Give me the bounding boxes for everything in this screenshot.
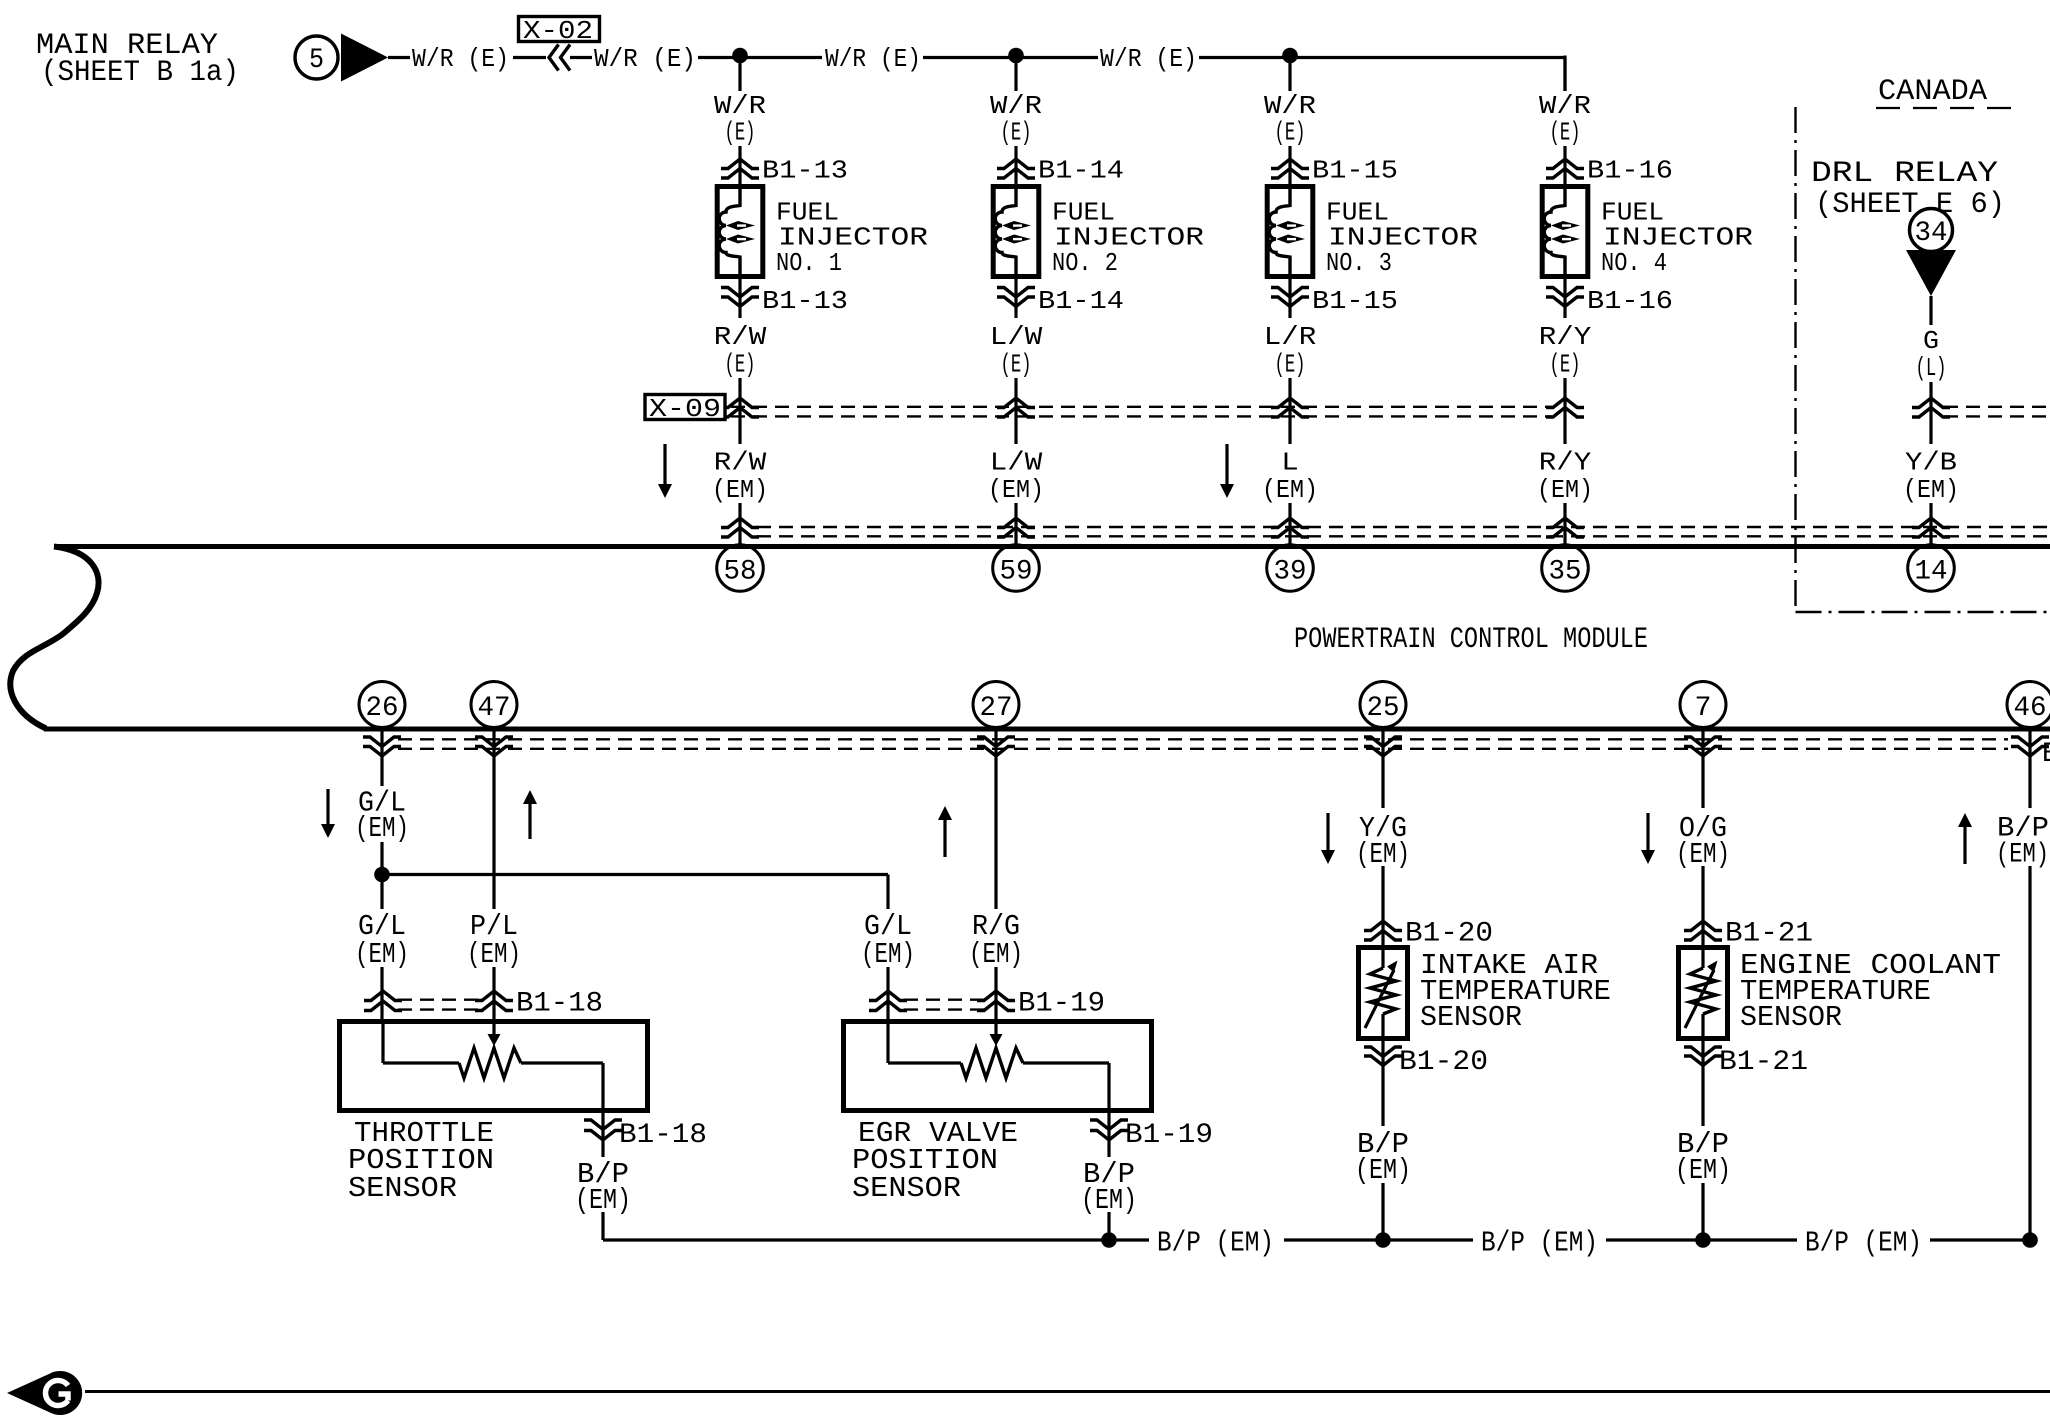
svg-text:B1-18: B1-18	[516, 989, 603, 1020]
svg-text:(E): (E)	[1001, 118, 1032, 148]
svg-text:B1-20: B1-20	[1399, 1047, 1488, 1078]
svg-text:B1-14: B1-14	[1038, 286, 1124, 316]
wire below sensor	[1381, 1041, 1384, 1126]
connector to PCM pin 58	[721, 518, 759, 528]
flow arrow (up) at pin 47	[528, 803, 531, 839]
flow arrow (up) at pin 46	[1963, 826, 1966, 864]
svg-text:26: 26	[366, 693, 399, 724]
wire B/P (EM) below THROTTLE sensor	[601, 1113, 604, 1157]
connector below pin 47	[475, 737, 513, 747]
svg-text:14: 14	[1915, 557, 1948, 588]
svg-text:47: 47	[478, 693, 511, 724]
svg-text:(E): (E)	[1275, 350, 1306, 380]
svg-text:(EM): (EM)	[1355, 1154, 1411, 1187]
svg-text:27: 27	[980, 693, 1013, 724]
pin 58	[717, 545, 764, 592]
svg-text:NO. 2: NO. 2	[1052, 248, 1118, 278]
connector B1-19 (bottom)	[1090, 1120, 1128, 1130]
svg-text:B/P (EM): B/P (EM)	[1481, 1227, 1598, 1260]
ground bus line	[85, 1390, 2050, 1393]
PCM connector dashed lines (upper)	[757, 526, 2050, 528]
connector B1-21 (bottom)	[1684, 1047, 1722, 1057]
pin 47	[471, 682, 517, 728]
svg-text:B1-21: B1-21	[1725, 919, 1813, 950]
node: junction injector 1 feed	[732, 48, 748, 64]
connector below pin 25	[1364, 737, 1402, 747]
svg-text:NO. 3: NO. 3	[1326, 248, 1392, 278]
svg-text:L: L	[1281, 448, 1299, 478]
CANADA region dash-dot border	[1794, 107, 1796, 612]
svg-text:POWERTRAIN CONTROL MODULE: POWERTRAIN CONTROL MODULE	[1294, 623, 1648, 657]
connector below pin 7	[1684, 737, 1722, 747]
connector B1-14 (top)	[997, 159, 1035, 169]
throttle position sensor	[340, 1022, 648, 1111]
fuel injector NO. 2	[993, 187, 1039, 277]
connector to PCM pin 14	[1912, 518, 1950, 528]
svg-text:(EM): (EM)	[1262, 475, 1318, 505]
pin 14	[1908, 545, 1955, 592]
svg-text:(SHEET B 1a): (SHEET B 1a)	[41, 56, 239, 90]
connector below pin 27	[977, 737, 1015, 747]
wire W/R (E) drop to fuel injector NO. 1	[738, 58, 741, 92]
wire branch G/L (EM) to EGR sensor	[382, 873, 888, 876]
connector to PCM pin 39	[1271, 518, 1309, 528]
svg-text:B1-13: B1-13	[762, 286, 848, 316]
node: junction pin-46 B/P	[2022, 1232, 2038, 1248]
svg-text:(E): (E)	[1275, 118, 1306, 148]
fuel injector NO. 1	[717, 187, 763, 277]
svg-text:58: 58	[724, 557, 757, 588]
node: junction IAT B/P	[1375, 1232, 1391, 1248]
connector X-09 chevrons	[1546, 398, 1584, 408]
wire Y/G (EM)	[1381, 731, 1384, 808]
svg-text:(EM): (EM)	[355, 938, 409, 971]
wire below injector	[1014, 277, 1017, 319]
connector B1-19 (wiper)	[977, 991, 1015, 1001]
svg-text:B1-16: B1-16	[1587, 156, 1673, 186]
connector X-09 chevrons	[721, 398, 759, 408]
fuel injector NO. 4	[1542, 187, 1588, 277]
svg-text:(EM): (EM)	[355, 812, 409, 845]
connector to PCM pin 35	[1546, 518, 1584, 528]
svg-text:(EM): (EM)	[969, 938, 1023, 971]
svg-text:R/W: R/W	[714, 448, 767, 478]
svg-text:(EM): (EM)	[1996, 840, 2049, 871]
node 34 : DRL relay circle	[1910, 209, 1953, 252]
connector B1-18 (wiper)	[475, 991, 513, 1001]
connector to PCM pin 59	[997, 518, 1035, 528]
svg-text:(EM): (EM)	[1537, 475, 1593, 505]
PCM left S-curve edge	[10, 547, 98, 729]
svg-text:R/Y: R/Y	[1539, 448, 1592, 478]
connector B1-13 (bottom)	[721, 288, 759, 298]
svg-text:(E): (E)	[1001, 350, 1032, 380]
svg-text:CANADA: CANADA	[1878, 75, 1987, 109]
connector B1-15 (bottom)	[1271, 288, 1309, 298]
svg-text:(EM): (EM)	[861, 938, 915, 971]
svg-text:SENSOR: SENSOR	[1420, 1001, 1522, 1034]
svg-text:(EM): (EM)	[467, 938, 521, 971]
svg-text:B1-19: B1-19	[1125, 1120, 1213, 1151]
wire below sensor	[1701, 1041, 1704, 1126]
arrow from main relay	[341, 34, 388, 82]
connector B1-16 (bottom)	[1546, 288, 1584, 298]
svg-text:7: 7	[1695, 693, 1712, 724]
flow arrow (down)	[1326, 813, 1329, 851]
svg-text:59: 59	[1000, 557, 1033, 588]
pin 26	[359, 682, 405, 728]
svg-text:X-02: X-02	[523, 16, 593, 46]
node: junction on G/L wire	[374, 867, 390, 883]
svg-text:W/R (E): W/R (E)	[825, 44, 921, 74]
connector B1-18 (left)	[364, 991, 402, 1001]
connector X-02	[513, 56, 546, 59]
pin 59	[993, 545, 1040, 592]
arrow from DRL relay	[1906, 250, 1956, 296]
wire W/R (E) drop to fuel injector NO. 2	[1014, 58, 1017, 92]
svg-text:(EM): (EM)	[1903, 475, 1959, 505]
fuel injector NO. 3	[1267, 187, 1313, 277]
connector B1-16 (top)	[1546, 159, 1584, 169]
svg-text:W/R: W/R	[1539, 91, 1591, 121]
svg-text:B1-14: B1-14	[1038, 156, 1124, 186]
svg-text:(E): (E)	[725, 350, 756, 380]
connector B1-20 (top)	[1364, 921, 1402, 931]
node: junction EGR B/P	[1101, 1232, 1117, 1248]
svg-text:SENSOR: SENSOR	[1740, 1001, 1842, 1034]
wire below injector	[738, 277, 741, 319]
svg-text:NO. 1: NO. 1	[776, 248, 842, 278]
connector below pin 46	[2011, 737, 2049, 747]
svg-text:W/R (E): W/R (E)	[594, 44, 696, 74]
temperature sensor box	[1359, 948, 1408, 1039]
svg-text:25: 25	[1367, 693, 1400, 724]
svg-text:(E): (E)	[1550, 350, 1581, 380]
connector X-09 dashed boundary	[731, 406, 1552, 408]
svg-text:B1-13: B1-13	[762, 156, 848, 186]
svg-text:W/R (E): W/R (E)	[412, 44, 509, 74]
PCM connector dashed lines (lower)	[398, 738, 2008, 740]
flow arrow (down) column 3	[1225, 444, 1228, 485]
svg-text:B1-15: B1-15	[1312, 286, 1398, 316]
svg-text:R/W: R/W	[714, 322, 767, 352]
pin 7	[1680, 682, 1726, 728]
PCM upper boundary (bus line)	[54, 544, 2050, 549]
svg-text:L/W: L/W	[990, 322, 1043, 352]
connector X-09 label box	[645, 395, 725, 420]
node: junction injector 3 feed	[1282, 48, 1298, 64]
wire R/G (EM) from pin 27	[994, 731, 997, 909]
pin 25	[1360, 682, 1406, 728]
wire G/L (EM) from pin 26	[380, 731, 383, 786]
svg-text:L/R: L/R	[1264, 322, 1317, 352]
wire O/G (EM)	[1701, 731, 1704, 808]
connector B1-15 (top)	[1271, 159, 1309, 169]
svg-text:35: 35	[1549, 557, 1582, 588]
wire: corner down to injector 4	[1563, 58, 1566, 92]
svg-text:B1-16: B1-16	[1587, 286, 1673, 316]
connector B1-14 (bottom)	[997, 288, 1035, 298]
wire B/P (EM) ground return bus	[603, 1238, 1149, 1241]
wire W/R (E) from main relay	[388, 56, 410, 59]
wire W/R (E) drop to fuel injector NO. 3	[1288, 58, 1291, 92]
connector B1-19 (left)	[869, 991, 907, 1001]
svg-text:(E): (E)	[1550, 118, 1581, 148]
pin 27	[973, 682, 1019, 728]
pin 39	[1267, 545, 1314, 592]
wire G (L)	[1929, 296, 1932, 325]
wire B/P (EM) below EGR VALVE sensor	[1107, 1113, 1110, 1157]
svg-text:B1-21: B1-21	[1719, 1047, 1808, 1078]
node 5 : main relay output circle	[295, 36, 338, 79]
wire below injector	[1288, 277, 1291, 319]
pin 46	[2007, 682, 2050, 728]
svg-text:(EM): (EM)	[712, 475, 768, 505]
flow arrow (down) column 1	[663, 444, 666, 485]
svg-text:G: G	[1923, 326, 1939, 356]
svg-text:B/P (EM): B/P (EM)	[1157, 1227, 1274, 1260]
connector B1-18 (bottom)	[584, 1120, 622, 1130]
temperature sensor box	[1679, 948, 1728, 1039]
connector B1-21 (top)	[1684, 921, 1722, 931]
svg-text:B1-15: B1-15	[1312, 156, 1398, 186]
svg-text:39: 39	[1274, 557, 1307, 588]
svg-text:DRL RELAY: DRL RELAY	[1811, 157, 1998, 191]
svg-text:(SHEET E 6): (SHEET E 6)	[1815, 188, 2005, 222]
ground G symbol	[7, 1371, 82, 1415]
svg-text:(EM): (EM)	[988, 475, 1044, 505]
svg-text:L/W: L/W	[990, 448, 1043, 478]
connector below pin 26	[363, 737, 401, 747]
svg-text:(L): (L)	[1916, 353, 1947, 383]
connector B1-13 (top)	[721, 159, 759, 169]
svg-text:W/R: W/R	[990, 91, 1042, 121]
svg-text:46: 46	[2014, 693, 2047, 724]
svg-text:R/Y: R/Y	[1539, 322, 1592, 352]
svg-text:X-09: X-09	[649, 394, 721, 424]
wire P/L (EM) from pin 47	[492, 731, 495, 909]
connector chevrons on G wire	[1912, 398, 1950, 408]
pin 35	[1542, 545, 1589, 592]
svg-text:B/P (EM): B/P (EM)	[1805, 1227, 1922, 1260]
connector X-09 chevrons	[997, 398, 1035, 408]
svg-text:B: B	[2042, 739, 2050, 770]
svg-text:(EM): (EM)	[1675, 1154, 1731, 1187]
flow arrow (down) at pin 26	[326, 789, 329, 825]
PCM lower boundary (bus line)	[44, 727, 2050, 732]
svg-text:B1-18: B1-18	[619, 1120, 707, 1151]
connector X-09 chevrons	[1271, 398, 1309, 408]
svg-text:SENSOR: SENSOR	[348, 1172, 457, 1205]
svg-text:Y/B: Y/B	[1905, 448, 1957, 478]
svg-text:B1-19: B1-19	[1018, 989, 1105, 1020]
flow arrow (down)	[1646, 813, 1649, 851]
connector B1-20 (bottom)	[1364, 1047, 1402, 1057]
svg-text:34: 34	[1915, 218, 1948, 249]
svg-text:SENSOR: SENSOR	[852, 1172, 961, 1205]
svg-text:(E): (E)	[725, 118, 756, 148]
node: junction injector 2 feed	[1008, 48, 1024, 64]
svg-text:B1-20: B1-20	[1405, 919, 1493, 950]
svg-text:W/R (E): W/R (E)	[1100, 44, 1197, 74]
EGR valve position sensor	[844, 1022, 1152, 1111]
wire B/P (EM) from pin 46	[2028, 731, 2031, 808]
svg-text:NO. 4: NO. 4	[1601, 248, 1667, 278]
svg-text:W/R: W/R	[1264, 91, 1316, 121]
svg-text:5: 5	[309, 45, 324, 76]
wire below injector	[1563, 277, 1566, 319]
node: junction ECT B/P	[1695, 1232, 1711, 1248]
svg-text:W/R: W/R	[714, 91, 766, 121]
flow arrow (up) at pin 27	[943, 819, 946, 857]
